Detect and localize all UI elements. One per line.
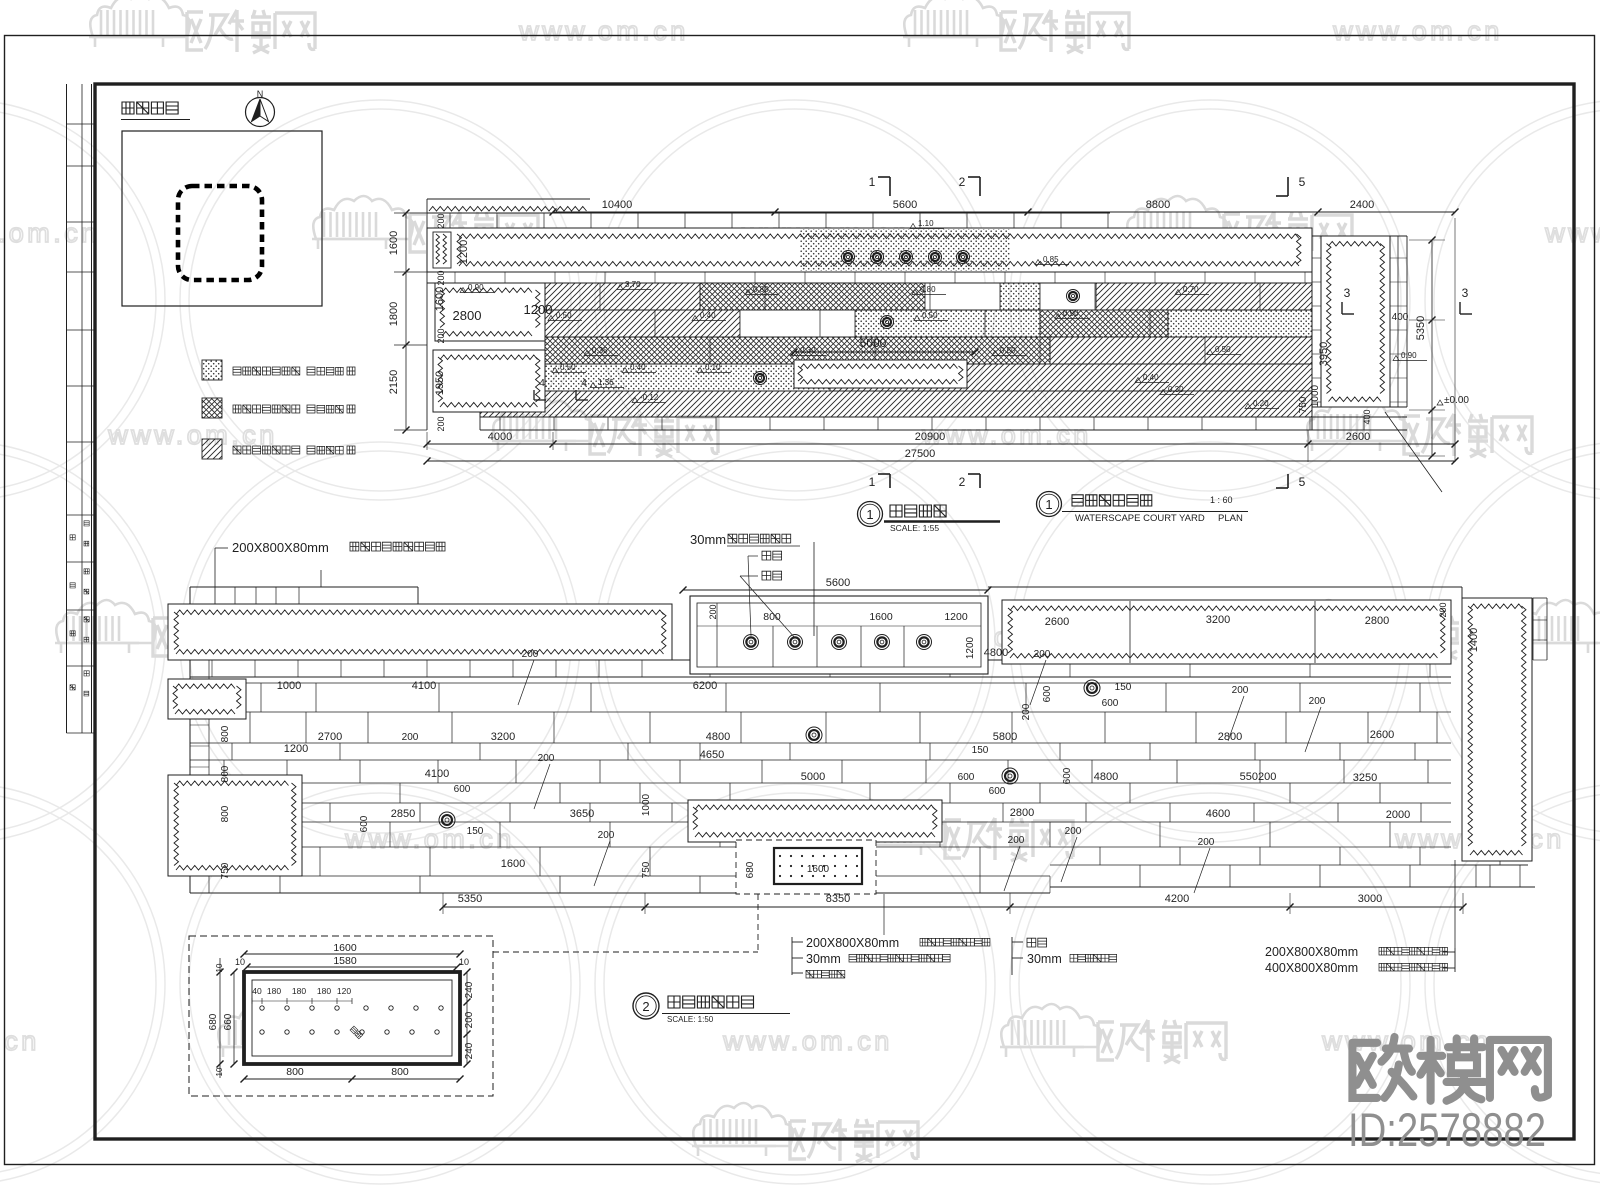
svg-text:1: 1 bbox=[1045, 497, 1052, 512]
svg-text:0.50: 0.50 bbox=[922, 311, 938, 320]
svg-text:1: 1 bbox=[869, 175, 876, 189]
svg-text:660: 660 bbox=[223, 1013, 234, 1030]
svg-text:30mm: 30mm bbox=[806, 952, 841, 966]
svg-text:5: 5 bbox=[1299, 175, 1306, 189]
detail top dims bbox=[244, 953, 460, 955]
svg-text:4100: 4100 bbox=[425, 768, 449, 780]
svg-text:200: 200 bbox=[538, 753, 555, 764]
svg-text:600: 600 bbox=[989, 786, 1006, 797]
bottom annotation left group bbox=[791, 937, 793, 975]
svg-text:200X800X80mm: 200X800X80mm bbox=[806, 936, 899, 950]
svg-text:0.70: 0.70 bbox=[1183, 285, 1199, 294]
svg-text:8800: 8800 bbox=[1146, 199, 1170, 211]
fountain nozzles row bbox=[842, 251, 855, 264]
svg-text:WATERSCAPE COURT YARD: WATERSCAPE COURT YARD bbox=[1075, 513, 1205, 524]
svg-text:www.om.cn: www.om.cn bbox=[0, 218, 100, 248]
svg-text:750: 750 bbox=[641, 861, 652, 878]
svg-text:2800: 2800 bbox=[453, 308, 482, 323]
svg-text:2800: 2800 bbox=[1010, 807, 1034, 819]
svg-text:2850: 2850 bbox=[391, 808, 415, 820]
svg-text:www.om.cn: www.om.cn bbox=[921, 420, 1092, 450]
paving hatch rows bbox=[545, 283, 700, 310]
svg-text:10: 10 bbox=[215, 963, 224, 972]
fountain dotted patch in pool bbox=[800, 229, 1010, 271]
svg-text:30mm: 30mm bbox=[1027, 952, 1062, 966]
svg-text:0.90: 0.90 bbox=[1063, 309, 1079, 318]
pool band right top bbox=[1002, 600, 1451, 664]
svg-text:0.20: 0.20 bbox=[1253, 399, 1269, 408]
svg-text:2700: 2700 bbox=[318, 731, 342, 743]
right appendix pool bbox=[1311, 228, 1313, 430]
svg-text:0.90: 0.90 bbox=[1401, 351, 1417, 360]
svg-text:8350: 8350 bbox=[826, 893, 850, 905]
svg-text:180: 180 bbox=[267, 986, 281, 996]
svg-text:0.30: 0.30 bbox=[800, 346, 816, 355]
title strip bbox=[66, 84, 68, 733]
plan titles bbox=[858, 502, 883, 527]
svg-text:www.om.cn: www.om.cn bbox=[0, 1026, 40, 1056]
site logo 欧模网 big gray bbox=[1352, 1037, 1547, 1101]
svg-text:0.50: 0.50 bbox=[556, 311, 572, 320]
svg-text:800: 800 bbox=[220, 725, 231, 742]
svg-text:www.om.cn: www.om.cn bbox=[1332, 16, 1503, 46]
detail right dims bbox=[466, 972, 468, 1064]
svg-text:200: 200 bbox=[436, 213, 446, 228]
svg-text:1800: 1800 bbox=[388, 302, 400, 326]
svg-text:0.85: 0.85 bbox=[1043, 255, 1059, 264]
svg-text:200: 200 bbox=[598, 830, 615, 841]
svg-text:5000: 5000 bbox=[801, 771, 825, 783]
watermark logo 欧模网 bbox=[89, 0, 190, 47]
svg-text:800: 800 bbox=[220, 805, 231, 822]
svg-text:3: 3 bbox=[1462, 286, 1469, 300]
svg-text:0.80: 0.80 bbox=[920, 285, 936, 294]
small left zigzag box bbox=[433, 232, 451, 268]
svg-text:3950: 3950 bbox=[1318, 342, 1330, 366]
svg-text:1950: 1950 bbox=[434, 371, 446, 395]
svg-text:6200: 6200 bbox=[693, 680, 717, 692]
svg-text:1000: 1000 bbox=[1310, 384, 1321, 407]
watermark logo 欧模网 bbox=[1277, 600, 1378, 653]
svg-text:200: 200 bbox=[436, 328, 446, 343]
svg-text:2: 2 bbox=[959, 475, 966, 489]
title 索引平面 bbox=[122, 102, 178, 114]
svg-text:1600: 1600 bbox=[388, 231, 400, 255]
svg-text:2600: 2600 bbox=[1370, 729, 1394, 741]
svg-text:5000: 5000 bbox=[860, 336, 887, 350]
dashed leaders to annotations bbox=[493, 951, 758, 953]
svg-text:20900: 20900 bbox=[915, 431, 946, 443]
svg-text:200: 200 bbox=[1021, 703, 1032, 720]
svg-text:1: 1 bbox=[869, 475, 876, 489]
svg-text:550200: 550200 bbox=[1240, 771, 1277, 783]
svg-text:5: 5 bbox=[1299, 475, 1306, 489]
detail bottom dims bbox=[244, 1078, 460, 1080]
svg-text:1: 1 bbox=[866, 507, 873, 522]
watermark logo 欧模网 bbox=[847, 802, 948, 855]
top edge bbox=[190, 586, 418, 588]
svg-text:750: 750 bbox=[1298, 396, 1309, 413]
svg-text:N: N bbox=[257, 89, 264, 99]
svg-text:4650: 4650 bbox=[700, 749, 724, 761]
detail left dims bbox=[219, 958, 221, 1078]
svg-text:0.50: 0.50 bbox=[1215, 345, 1231, 354]
bottom dims middle plan bbox=[443, 906, 1463, 908]
svg-text:750: 750 bbox=[220, 862, 231, 879]
svg-text:5600: 5600 bbox=[893, 199, 917, 211]
svg-text:10400: 10400 bbox=[602, 199, 633, 211]
svg-text:200: 200 bbox=[708, 604, 718, 619]
bottom annotation middle group bbox=[1011, 937, 1013, 975]
5600 dim bbox=[683, 589, 988, 591]
tile row under pool bbox=[168, 659, 1451, 661]
svg-text:PLAN: PLAN bbox=[1218, 513, 1243, 524]
svg-text:3000: 3000 bbox=[1358, 893, 1382, 905]
svg-text:800: 800 bbox=[220, 765, 231, 782]
right pool vertical bbox=[1462, 598, 1532, 861]
top tile band bbox=[427, 198, 590, 200]
svg-text:www.om.cn: www.om.cn bbox=[518, 16, 689, 46]
single fountains bbox=[1084, 680, 1100, 696]
bottom dim lines top plan bbox=[427, 443, 1455, 445]
left edge pools bbox=[168, 679, 246, 719]
svg-text:400X800X80mm: 400X800X80mm bbox=[1265, 961, 1358, 975]
svg-text:2800: 2800 bbox=[1365, 615, 1389, 627]
svg-text:30mm: 30mm bbox=[690, 532, 726, 547]
svg-text:3650: 3650 bbox=[570, 808, 594, 820]
svg-text:5600: 5600 bbox=[826, 577, 850, 589]
svg-text:2: 2 bbox=[642, 999, 649, 1014]
svg-text:3.70: 3.70 bbox=[625, 280, 641, 289]
svg-text:1200: 1200 bbox=[965, 636, 976, 659]
svg-text:200: 200 bbox=[1034, 649, 1051, 660]
svg-text:10: 10 bbox=[215, 1067, 224, 1076]
watermark logo 欧模网 bbox=[1514, 600, 1600, 653]
svg-text:0.40: 0.40 bbox=[700, 311, 716, 320]
svg-text:200: 200 bbox=[464, 1011, 475, 1028]
svg-text:3200: 3200 bbox=[491, 731, 515, 743]
svg-text:800: 800 bbox=[286, 1066, 304, 1078]
svg-text:1600: 1600 bbox=[434, 287, 446, 311]
key plan dashed outline bbox=[178, 186, 262, 280]
svg-text:5350: 5350 bbox=[458, 893, 482, 905]
svg-text:200: 200 bbox=[1309, 696, 1326, 707]
svg-text:800: 800 bbox=[391, 1066, 409, 1078]
svg-text:200: 200 bbox=[1065, 826, 1082, 837]
svg-text:-0.12: -0.12 bbox=[640, 393, 659, 402]
section flags top bbox=[878, 176, 890, 178]
svg-text:200: 200 bbox=[1198, 837, 1215, 848]
body paver rows bbox=[190, 682, 1451, 684]
svg-text:1200: 1200 bbox=[524, 302, 553, 317]
svg-text:1600: 1600 bbox=[501, 858, 525, 870]
svg-text:4000: 4000 bbox=[488, 431, 512, 443]
svg-text:5350: 5350 bbox=[1415, 316, 1427, 340]
svg-text:150: 150 bbox=[467, 826, 484, 837]
svg-text:10: 10 bbox=[235, 957, 245, 967]
paver joints middle plan bbox=[260, 683, 262, 712]
svg-text:180: 180 bbox=[317, 986, 331, 996]
svg-text:150: 150 bbox=[972, 745, 989, 756]
long zigzag pool in top plan bbox=[794, 360, 967, 388]
single fountains top plan bbox=[1067, 290, 1080, 303]
svg-text:200: 200 bbox=[1008, 835, 1025, 846]
svg-text:4800: 4800 bbox=[706, 731, 730, 743]
svg-text:SCALE: 1:55: SCALE: 1:55 bbox=[890, 523, 939, 533]
svg-text:1200: 1200 bbox=[284, 743, 308, 755]
svg-text:200X800X80mm: 200X800X80mm bbox=[232, 540, 329, 555]
svg-text:1200: 1200 bbox=[944, 611, 968, 623]
zigzag pool box 1950 bbox=[433, 350, 545, 412]
svg-text:±0.00: ±0.00 bbox=[1444, 395, 1469, 406]
svg-text:200: 200 bbox=[436, 270, 446, 285]
top tile notches above pool bbox=[234, 587, 236, 604]
svg-text:150: 150 bbox=[1115, 682, 1132, 693]
svg-text:600: 600 bbox=[359, 815, 370, 832]
svg-text:680: 680 bbox=[208, 1013, 219, 1030]
svg-text:200: 200 bbox=[1232, 685, 1249, 696]
svg-text:680: 680 bbox=[745, 861, 756, 878]
svg-text:0.90: 0.90 bbox=[468, 283, 484, 292]
watermark logo 欧模网 bbox=[1000, 1004, 1101, 1057]
svg-text:5800: 5800 bbox=[993, 731, 1017, 743]
svg-text:200X800X80mm: 200X800X80mm bbox=[1265, 945, 1358, 959]
svg-text:1000: 1000 bbox=[277, 680, 301, 692]
svg-text:1.36: 1.36 bbox=[598, 378, 614, 387]
pool band left bbox=[168, 604, 672, 660]
svg-text:2400: 2400 bbox=[1350, 199, 1374, 211]
svg-text:1200: 1200 bbox=[458, 240, 470, 264]
svg-text:600: 600 bbox=[1102, 698, 1119, 709]
svg-text:SCALE: 1:50: SCALE: 1:50 bbox=[667, 1015, 714, 1024]
svg-text:200: 200 bbox=[1438, 602, 1448, 617]
row boundary lines bbox=[545, 309, 1312, 311]
svg-text:0.35: 0.35 bbox=[592, 346, 608, 355]
svg-text:0.80: 0.80 bbox=[753, 285, 769, 294]
svg-text:4: 4 bbox=[539, 378, 545, 389]
watermark logo 欧模网 bbox=[692, 1103, 793, 1156]
svg-text:400: 400 bbox=[1392, 312, 1409, 323]
svg-text:120: 120 bbox=[337, 986, 351, 996]
label detail 2 bbox=[633, 993, 659, 1019]
svg-text:0.10: 0.10 bbox=[705, 363, 721, 372]
svg-text:2150: 2150 bbox=[388, 370, 400, 394]
right tiles bbox=[1533, 597, 1547, 599]
watermark logo 欧模网 bbox=[55, 600, 156, 653]
svg-text:4: 4 bbox=[581, 378, 587, 389]
svg-text:1600: 1600 bbox=[869, 611, 893, 623]
svg-text:800: 800 bbox=[763, 611, 781, 623]
svg-text:4100: 4100 bbox=[412, 680, 436, 692]
fountain nozzles bbox=[744, 635, 759, 650]
svg-text:2600: 2600 bbox=[1346, 431, 1370, 443]
svg-text:0.50: 0.50 bbox=[1000, 346, 1016, 355]
central pool middle plan bbox=[688, 800, 942, 842]
big pool band top bbox=[427, 228, 1312, 272]
svg-text:240: 240 bbox=[464, 981, 475, 998]
top dim line bbox=[553, 211, 1455, 213]
detail dashed box in plan bbox=[736, 840, 876, 894]
svg-text:0.40: 0.40 bbox=[630, 363, 646, 372]
svg-text:2600: 2600 bbox=[1045, 616, 1069, 628]
svg-text:600: 600 bbox=[1062, 767, 1073, 784]
svg-text:0.40: 0.40 bbox=[1143, 373, 1159, 382]
svg-text:400: 400 bbox=[1362, 409, 1372, 424]
svg-text:1000: 1000 bbox=[641, 793, 652, 816]
svg-text:180: 180 bbox=[292, 986, 306, 996]
svg-text:2000: 2000 bbox=[1386, 809, 1410, 821]
svg-text:600: 600 bbox=[1042, 685, 1053, 702]
svg-text:www.om.cn: www.om.cn bbox=[722, 1026, 893, 1056]
fountain box bbox=[690, 596, 988, 674]
zigzag pool box 2800 bbox=[435, 283, 545, 341]
watermark logo 欧模网 bbox=[492, 398, 593, 451]
svg-text:40: 40 bbox=[252, 986, 262, 996]
svg-text:10: 10 bbox=[459, 957, 469, 967]
svg-text:1600: 1600 bbox=[333, 942, 357, 954]
watermark logo 欧模网 bbox=[217, 1004, 318, 1057]
watermark logo 欧模网 bbox=[312, 196, 413, 249]
svg-text:2800: 2800 bbox=[1218, 731, 1242, 743]
svg-text:1600: 1600 bbox=[807, 864, 830, 875]
svg-text:3: 3 bbox=[1344, 286, 1351, 300]
watermark logo 欧模网 bbox=[1306, 398, 1407, 451]
compass north arrow bbox=[246, 98, 275, 127]
key plan box bbox=[122, 131, 322, 306]
svg-text:0.50: 0.50 bbox=[560, 363, 576, 372]
svg-text:200: 200 bbox=[402, 732, 419, 743]
section flags bottom of top plan bbox=[878, 473, 890, 475]
detail inner thick rect bbox=[244, 972, 460, 1064]
svg-text:www.om.cn: www.om.cn bbox=[107, 420, 278, 450]
svg-text:200: 200 bbox=[436, 416, 446, 431]
svg-text:4200: 4200 bbox=[1165, 893, 1189, 905]
svg-text:240: 240 bbox=[464, 1042, 475, 1059]
svg-text:2: 2 bbox=[959, 175, 966, 189]
svg-text:1.10: 1.10 bbox=[918, 219, 934, 228]
svg-text:3200: 3200 bbox=[1206, 614, 1230, 626]
svg-text:600: 600 bbox=[958, 772, 975, 783]
svg-text:4800: 4800 bbox=[1094, 771, 1118, 783]
svg-text:200: 200 bbox=[522, 649, 539, 660]
svg-text:1580: 1580 bbox=[333, 955, 357, 967]
svg-text:4600: 4600 bbox=[1206, 808, 1230, 820]
svg-text:600: 600 bbox=[454, 784, 471, 795]
svg-text:4800: 4800 bbox=[984, 647, 1008, 659]
watermark logo 欧模网 bbox=[903, 0, 1004, 47]
svg-text:27500: 27500 bbox=[905, 448, 936, 460]
legend bbox=[202, 360, 222, 380]
detail nozzle dots bbox=[260, 1006, 264, 1010]
svg-text:0.30: 0.30 bbox=[1168, 385, 1184, 394]
svg-text:1 : 60: 1 : 60 bbox=[1210, 495, 1233, 505]
svg-text:www.om.cn: www.om.cn bbox=[1544, 218, 1600, 248]
svg-text:1400: 1400 bbox=[1468, 628, 1480, 652]
svg-text:ID:2578882: ID:2578882 bbox=[1348, 1103, 1546, 1156]
svg-text:3250: 3250 bbox=[1353, 772, 1377, 784]
watermark logo 欧模网 bbox=[1126, 196, 1227, 249]
detail 2 drawing dashed frame bbox=[189, 936, 493, 1096]
